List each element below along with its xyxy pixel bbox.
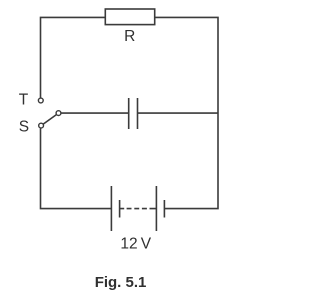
svg-text:Fig. 5.1: Fig. 5.1 [95, 274, 147, 291]
svg-text:12 V: 12 V [120, 236, 151, 253]
svg-text:T: T [19, 92, 29, 109]
svg-text:S: S [19, 118, 29, 135]
svg-text:R: R [124, 28, 135, 45]
